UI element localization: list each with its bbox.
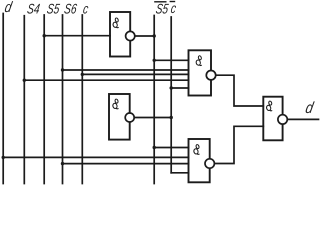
wire NOT-S5 net vertical line bbox=[153, 16, 155, 184]
node d junction to U4 bbox=[2, 156, 5, 159]
wire S6 to gate U3 input 2 bbox=[63, 69, 189, 71]
op-amp U3 5-input NAND box bbox=[189, 50, 212, 95]
wire S6 to gate U4 input 3 bbox=[63, 163, 189, 165]
svg-text:d: d bbox=[304, 100, 316, 117]
svg-text:S5: S5 bbox=[46, 1, 61, 17]
wire d vertical input line bbox=[2, 14, 4, 184]
label ampersand of U5 bbox=[266, 101, 272, 111]
node NOT-S5 junction at U1 output bbox=[153, 34, 156, 37]
wire S4 vertical input line bbox=[23, 16, 25, 184]
wire NOT-S5 to gate U3 input 1 bbox=[154, 59, 188, 61]
op-amp U5 2-input NAND output box bbox=[263, 97, 282, 141]
wire NOT-c to gate U3 input 5 bbox=[171, 87, 188, 89]
svg-text:S4: S4 bbox=[26, 1, 41, 17]
wire gate U4 output path bbox=[214, 126, 263, 163]
op-amp U5 output bubble bbox=[278, 115, 287, 124]
label ampersand of U3 bbox=[196, 55, 202, 65]
svg-text:S6: S6 bbox=[63, 1, 78, 17]
svg-text:S5: S5 bbox=[155, 1, 170, 17]
node NOT-c junction to U3 bbox=[170, 86, 173, 89]
wire gate U5 output d bbox=[287, 118, 318, 120]
wire d to gate U4 input 2 bbox=[3, 156, 188, 158]
wire S4 to gate U3 input 4 bbox=[24, 79, 188, 81]
op-amp U4 4-input NAND box bbox=[189, 139, 210, 182]
svg-text:c: c bbox=[170, 1, 177, 17]
op-amp U1 output bubble bbox=[126, 31, 135, 40]
wire NOT-c net vertical line bbox=[170, 17, 172, 173]
label ampersand of U1 bbox=[112, 18, 118, 28]
node c junction to U3 bbox=[81, 73, 84, 76]
wire gate U3 output path bbox=[216, 75, 264, 106]
wire c to gate U3 input 3 bbox=[82, 73, 188, 75]
wire NOT-S5 to gate U4 input 1 bbox=[154, 147, 188, 149]
op-amp U2 NAND inverter box (c to NOT-c) bbox=[109, 94, 130, 140]
overline of NOT-c label bbox=[170, 1, 176, 2]
wire gate U2 output to NOT-c net bbox=[134, 117, 171, 119]
overline of NOT-S5 label bbox=[154, 1, 166, 2]
wire c vertical input line bbox=[81, 15, 83, 184]
svg-text:c: c bbox=[82, 1, 89, 17]
node S6 junction to U3 bbox=[61, 68, 64, 71]
op-amp U4 output bubble bbox=[205, 159, 214, 168]
node S4 junction to U3 bbox=[23, 79, 26, 82]
node S5 junction to U1 bbox=[43, 34, 46, 37]
label ampersand of U2 bbox=[112, 99, 118, 109]
op-amp U3 output bubble bbox=[206, 71, 215, 80]
wire S6 vertical input line bbox=[62, 15, 64, 184]
node NOT-S5 junction to U4 bbox=[153, 146, 156, 149]
wire S5 to gate U1 input bbox=[44, 35, 110, 37]
wire S5 vertical input line bbox=[43, 15, 45, 184]
op-amp U1 NAND inverter box (S5 to NOT-S5) bbox=[110, 12, 130, 57]
label ampersand of U4 bbox=[193, 144, 199, 154]
op-amp U2 output bubble bbox=[125, 113, 134, 122]
node NOT-S5 junction to U3 bbox=[153, 59, 156, 62]
wire NOT-c bend to gate U4 input 4 bbox=[171, 172, 188, 174]
node NOT-c junction at U2 output bbox=[170, 116, 173, 119]
node S6 junction to U4 bbox=[61, 162, 64, 165]
wire gate U1 output to NOT-S5 net bbox=[135, 35, 154, 37]
svg-text:d: d bbox=[3, 0, 13, 15]
